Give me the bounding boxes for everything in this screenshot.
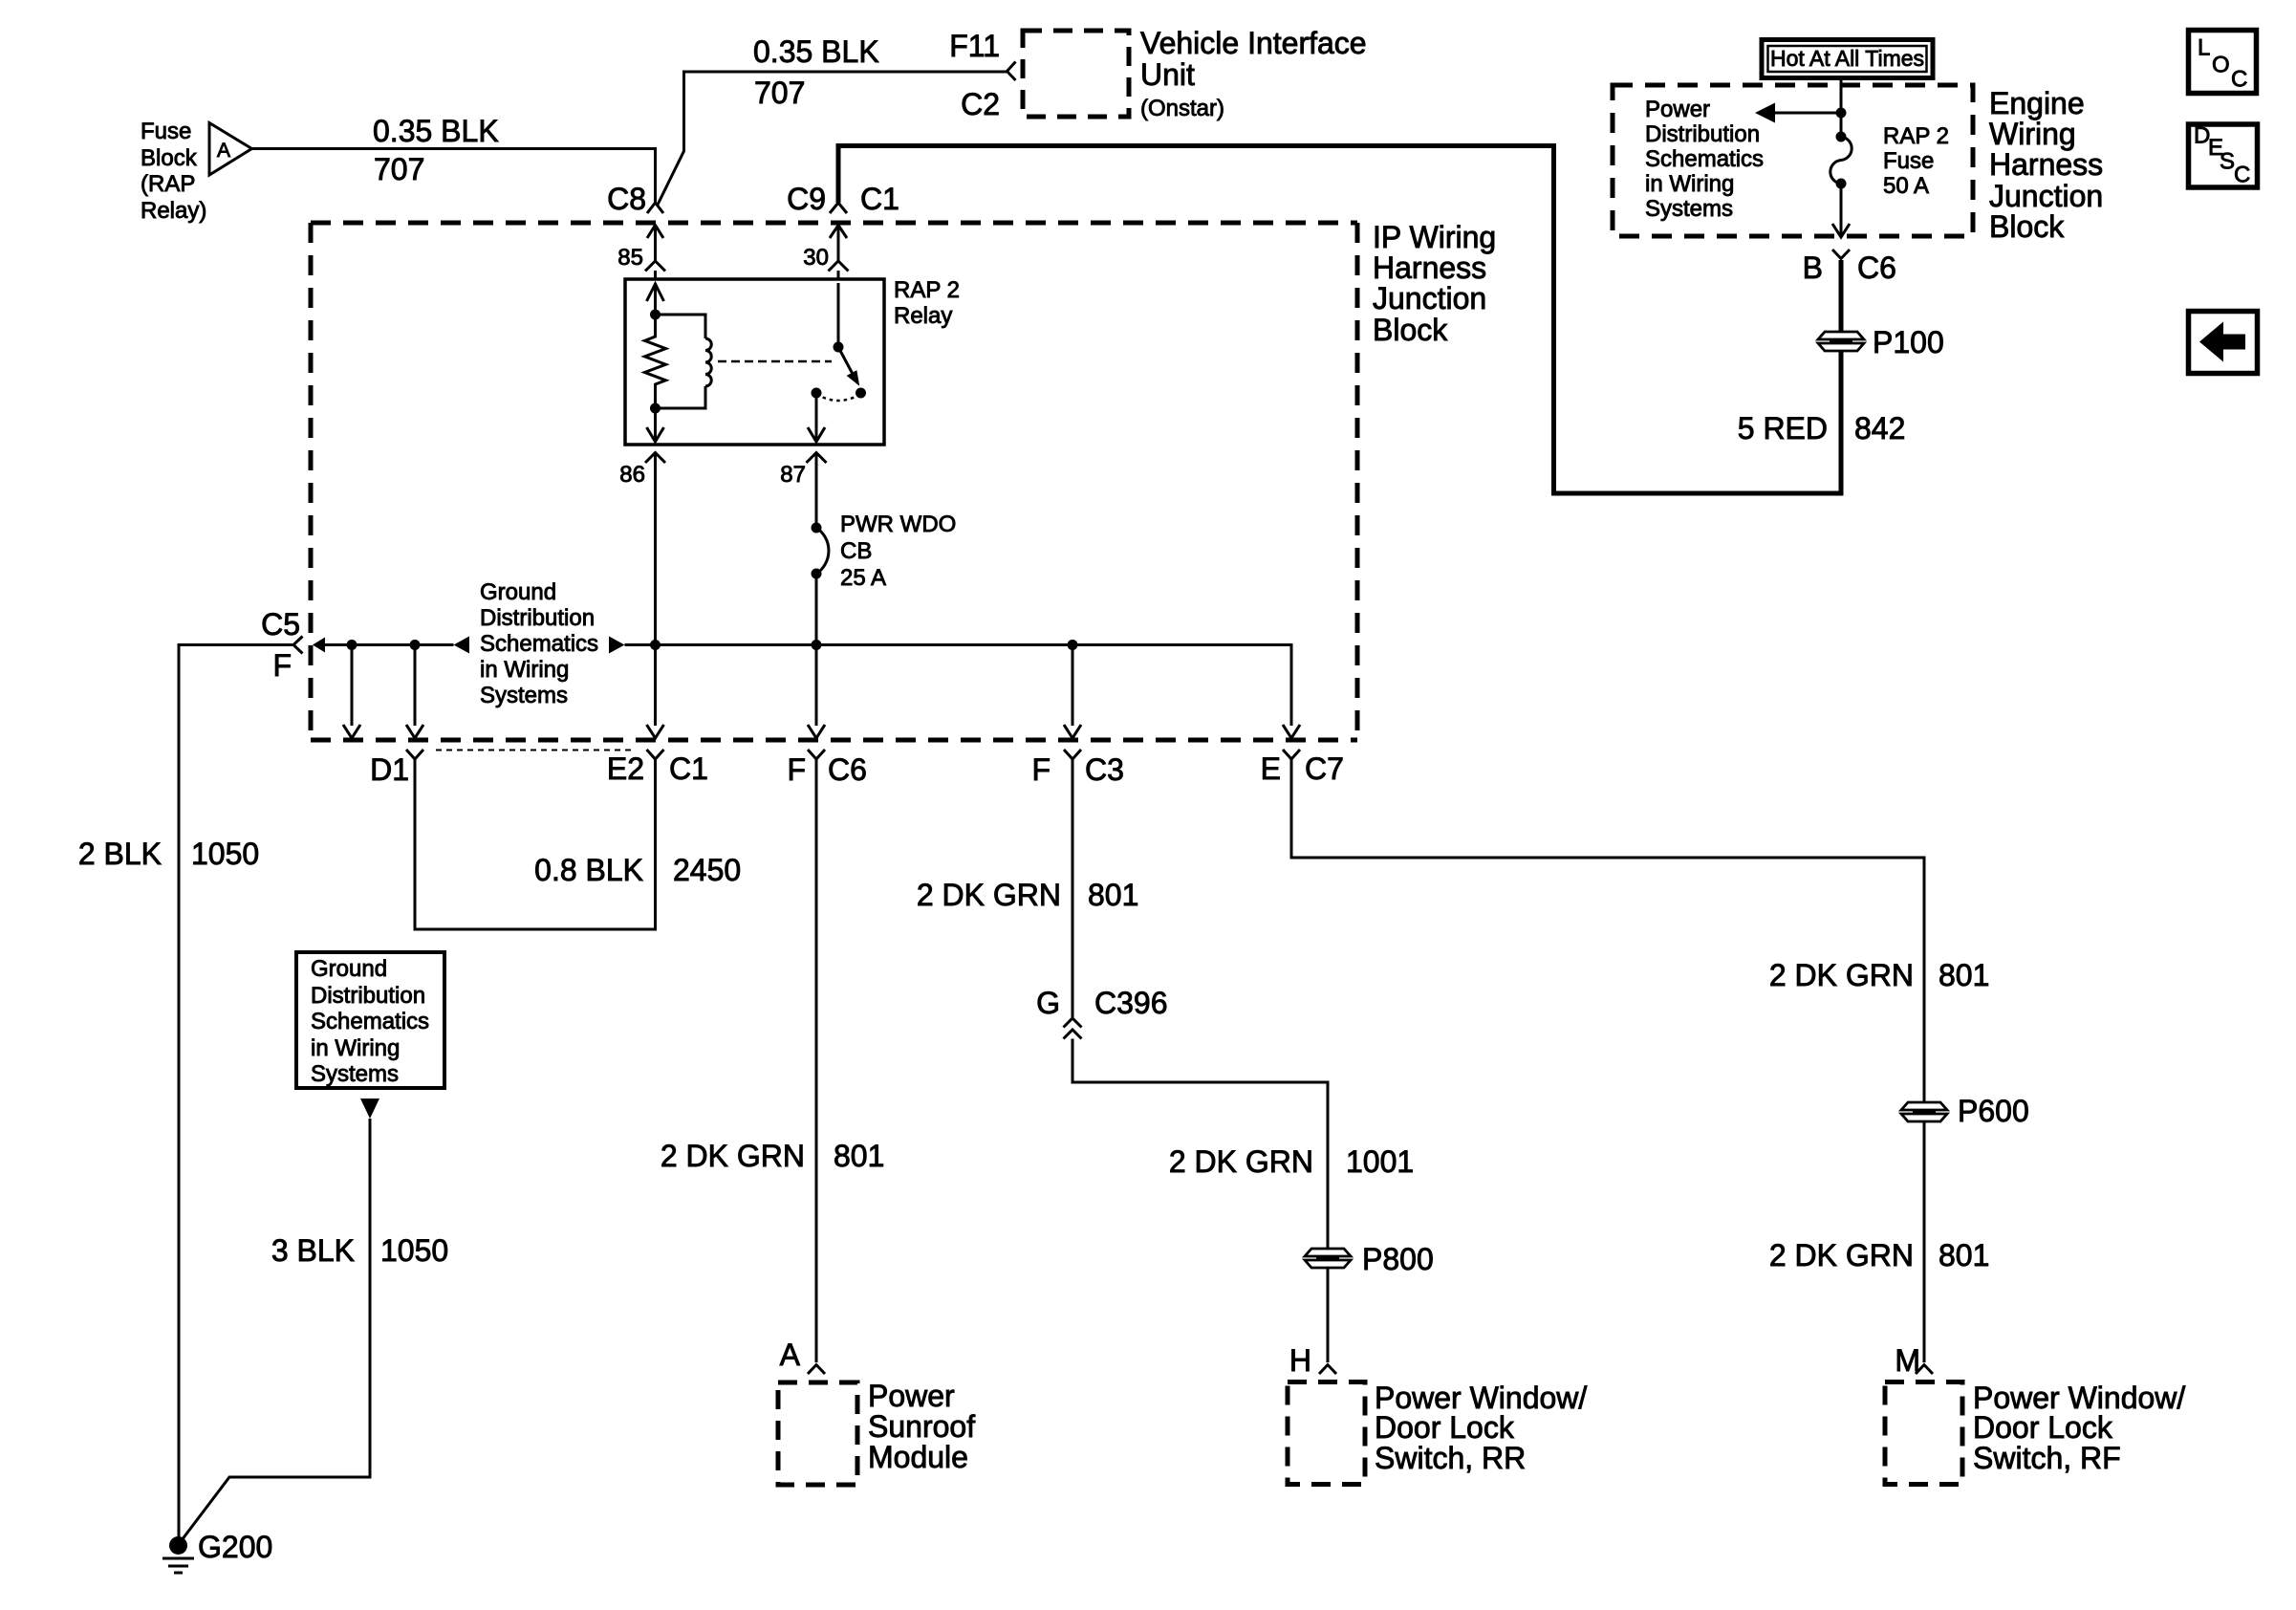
- svg-text:Block: Block: [141, 145, 198, 171]
- connector E2 C1: [607, 750, 708, 786]
- svg-text:2450: 2450: [673, 853, 741, 887]
- svg-text:Schematics: Schematics: [480, 631, 598, 657]
- svg-text:Vehicle Interface: Vehicle Interface: [1140, 26, 1367, 60]
- svg-text:30: 30: [803, 245, 829, 271]
- pin 30: [803, 245, 848, 279]
- svg-text:A: A: [780, 1338, 801, 1372]
- svg-text:Block: Block: [1989, 209, 2065, 244]
- wire C1 feed to engine junction block (thick): [838, 146, 1841, 494]
- svg-text:C3: C3: [1085, 752, 1124, 787]
- wire coil to pin 86: [654, 408, 657, 427]
- svg-text:Schematics: Schematics: [311, 1009, 429, 1034]
- svg-text:Switch, RF: Switch, RF: [1973, 1441, 2121, 1475]
- svg-text:Relay): Relay): [141, 198, 206, 224]
- power window door lock switch RF box: [1885, 1381, 2185, 1485]
- wire F C6 down to sunroof module (2 DK GRN 801): [815, 759, 818, 1362]
- arrow down at engine box edge: [1832, 224, 1850, 237]
- svg-text:D1: D1: [370, 752, 409, 787]
- svg-text:(Onstar): (Onstar): [1140, 96, 1224, 121]
- svg-text:C7: C7: [1305, 751, 1344, 786]
- svg-text:H: H: [1289, 1343, 1311, 1378]
- power window door lock switch RR box: [1288, 1381, 1587, 1485]
- value label 2 DK GRN 801 (lower right): [1769, 1238, 1990, 1273]
- svg-text:50 A: 50 A: [1883, 173, 1929, 199]
- arrow down at E2: [647, 725, 664, 738]
- fuse block label: [141, 119, 206, 224]
- wire F C3 down to G C396 (2 DK GRN 801): [1072, 759, 1074, 1017]
- svg-text:E2: E2: [607, 751, 644, 786]
- svg-text:C: C: [2231, 67, 2247, 93]
- svg-text:Wiring: Wiring: [1989, 117, 2076, 151]
- svg-text:F: F: [1031, 752, 1051, 787]
- value label 0.35 BLK 707 (upper): [753, 34, 879, 110]
- value label 2 DK GRN 801 (upper right): [1769, 958, 1990, 992]
- wire pin 87 to CB: [815, 453, 818, 528]
- ground distribution schematics label (mid): [480, 579, 598, 708]
- svg-text:801: 801: [1088, 878, 1138, 912]
- relay coil branch arrow: [647, 284, 664, 301]
- svg-text:C1: C1: [860, 182, 899, 216]
- svg-text:2 DK GRN: 2 DK GRN: [1769, 1238, 1914, 1273]
- resistor (relay): [645, 315, 666, 408]
- junction on ground bus at E2 line: [650, 640, 661, 650]
- value label 3 BLK 1050: [271, 1233, 448, 1268]
- wire pin 86 down: [654, 453, 657, 726]
- svg-text:707: 707: [754, 76, 805, 110]
- svg-text:CB: CB: [840, 538, 872, 564]
- svg-text:F11: F11: [949, 29, 1000, 63]
- svg-text:E: E: [1261, 751, 1281, 786]
- node A fuse block triangle: [209, 123, 252, 176]
- arrow down at E C7: [1283, 725, 1300, 738]
- wire down to D1: [406, 645, 423, 739]
- svg-text:1001: 1001: [1346, 1144, 1414, 1179]
- connector D1: [370, 750, 423, 787]
- connector G C396: [1036, 986, 1167, 1039]
- svg-text:S: S: [2220, 149, 2235, 175]
- svg-text:P600: P600: [1958, 1094, 2029, 1128]
- svg-text:in Wiring: in Wiring: [311, 1035, 400, 1061]
- svg-text:Relay: Relay: [894, 303, 952, 329]
- connector H switch RR: [1289, 1343, 1336, 1378]
- wire G C396 to P800 branch: [1072, 1039, 1328, 1250]
- svg-text:Fuse: Fuse: [1883, 148, 1934, 174]
- arrow left power distribution: [1755, 103, 1775, 123]
- wire C8 to F11 (0.35 BLK 707 upper): [658, 72, 1007, 205]
- thin dashed connector line D1-E2: [436, 750, 634, 751]
- svg-text:2 DK GRN: 2 DK GRN: [661, 1139, 805, 1173]
- svg-text:Power: Power: [868, 1379, 955, 1413]
- pass-through grommet P600: [1901, 1094, 2029, 1128]
- svg-text:87: 87: [780, 462, 806, 488]
- svg-text:Systems: Systems: [311, 1061, 399, 1087]
- back arrow box: [2189, 312, 2258, 374]
- description reference box DESC: [2189, 123, 2258, 188]
- svg-text:Systems: Systems: [1645, 196, 1733, 222]
- svg-text:Junction: Junction: [1373, 281, 1486, 315]
- wire contact to pin 87: [815, 393, 818, 427]
- svg-text:(RAP: (RAP: [141, 171, 195, 197]
- svg-text:PWR WDO: PWR WDO: [840, 511, 956, 537]
- relay actuation dashed link: [718, 360, 832, 363]
- relay RAP 2 box: [625, 277, 960, 445]
- svg-text:Junction: Junction: [1989, 179, 2103, 213]
- junction on ground bus at stub: [347, 640, 357, 650]
- svg-text:C5: C5: [261, 607, 300, 642]
- power sunroof module box: [778, 1379, 975, 1485]
- ground bus wire inside IP box: [325, 643, 454, 646]
- connector C8: [607, 182, 663, 216]
- wire E C7 down and right to RF branch: [1291, 759, 1924, 1101]
- connector F11 C2: [949, 29, 1015, 121]
- connector C9 C1: [787, 182, 899, 216]
- arrow down to pin 87: [808, 427, 825, 442]
- svg-text:Distribution: Distribution: [1645, 121, 1760, 147]
- relay coil top wire: [654, 283, 657, 315]
- svg-text:801: 801: [1939, 1238, 1989, 1273]
- arrow left ground schematics: [454, 637, 470, 654]
- junction: [1836, 108, 1847, 119]
- svg-text:2 BLK: 2 BLK: [78, 837, 162, 871]
- svg-text:Power: Power: [1645, 97, 1710, 122]
- svg-text:G200: G200: [198, 1530, 272, 1564]
- value label 2 DK GRN 1001: [1169, 1144, 1414, 1179]
- power distribution schematics label: [1645, 97, 1764, 222]
- svg-text:801: 801: [1939, 958, 1989, 992]
- svg-text:Distribution: Distribution: [311, 983, 425, 1009]
- svg-text:A: A: [217, 140, 230, 162]
- svg-text:842: 842: [1854, 411, 1905, 446]
- svg-text:C6: C6: [1857, 250, 1896, 285]
- location reference box LOC: [2189, 31, 2257, 94]
- pin 85: [617, 245, 665, 279]
- value label 0.8 BLK 2450: [534, 853, 741, 887]
- svg-text:86: 86: [619, 462, 645, 488]
- svg-text:2 DK GRN: 2 DK GRN: [1169, 1144, 1313, 1179]
- wire 2 BLK 1050 from C5 to G200: [179, 645, 293, 1542]
- svg-text:3 BLK: 3 BLK: [271, 1233, 355, 1268]
- svg-text:Ground: Ground: [480, 579, 556, 605]
- svg-text:0.8 BLK: 0.8 BLK: [534, 853, 643, 887]
- svg-text:C6: C6: [828, 752, 867, 787]
- arrow right ground schematics: [609, 637, 625, 654]
- hot at all times box: [1762, 40, 1933, 78]
- wire C9 arrow to pin30: [837, 226, 840, 261]
- svg-text:Ground: Ground: [311, 956, 387, 982]
- wire fuse to B C6: [1840, 184, 1843, 236]
- junction: [650, 403, 661, 414]
- connector B C6: [1803, 250, 1896, 285]
- junction: [650, 310, 661, 320]
- svg-text:Schematics: Schematics: [1645, 146, 1764, 172]
- svg-text:25 A: 25 A: [840, 565, 886, 591]
- arrow into IP box at C9/C1: [830, 226, 847, 239]
- circuit breaker PWR WDO CB 25 A: [812, 511, 957, 591]
- svg-text:1050: 1050: [380, 1233, 448, 1268]
- wire to power distribution arrow: [1775, 112, 1841, 115]
- value label 5 RED 842: [1738, 411, 1906, 446]
- arrow down to pin 86: [647, 427, 664, 442]
- ground bus wire to E C7 drop: [625, 645, 1292, 727]
- wire hot feed down from hot box: [1840, 77, 1843, 137]
- relay switch dotted arc: [816, 394, 861, 401]
- svg-text:Engine: Engine: [1989, 86, 2085, 120]
- svg-text:C: C: [2234, 163, 2250, 188]
- wire 3 BLK 1050 to G200: [182, 1119, 370, 1540]
- svg-text:C9: C9: [787, 182, 826, 216]
- svg-text:C2: C2: [961, 87, 1000, 121]
- svg-text:C1: C1: [669, 751, 708, 786]
- engine wiring harness junction block dashed box: [1613, 85, 2103, 244]
- wire P600 to M (2 DK GRN 801): [1923, 1121, 1926, 1362]
- arrow into IP box at C8: [647, 226, 663, 239]
- connector C5: [261, 607, 302, 683]
- relay switch arm: [838, 347, 859, 385]
- svg-text:Fuse: Fuse: [141, 119, 191, 144]
- svg-text:P100: P100: [1873, 325, 1944, 359]
- svg-text:RAP 2: RAP 2: [894, 277, 960, 303]
- junction on ground bus at C6 line: [812, 640, 822, 650]
- svg-text:P800: P800: [1362, 1242, 1434, 1276]
- svg-text:C396: C396: [1094, 986, 1168, 1020]
- wire A to C8 (0.35 BLK 707): [252, 149, 656, 203]
- svg-text:Block: Block: [1373, 313, 1448, 347]
- svg-text:1050: 1050: [191, 837, 259, 871]
- solid arrow below ground box: [360, 1099, 379, 1119]
- connector F C6: [787, 750, 866, 787]
- pass-through grommet P800: [1305, 1242, 1434, 1276]
- svg-text:G: G: [1036, 986, 1060, 1020]
- svg-text:Unit: Unit: [1140, 57, 1195, 92]
- value label 2 DK GRN 801: [661, 1139, 885, 1173]
- junction on ground bus at D1 drop: [410, 640, 421, 650]
- svg-text:85: 85: [617, 245, 643, 271]
- vehicle interface unit box: [1023, 26, 1367, 121]
- svg-text:Sunroof: Sunroof: [868, 1409, 975, 1444]
- stub wire down from ground bus: [343, 645, 360, 739]
- svg-text:707: 707: [374, 152, 424, 186]
- svg-text:Harness: Harness: [1989, 147, 2103, 182]
- value label 2 DK GRN 801: [917, 878, 1139, 912]
- svg-text:F: F: [787, 752, 806, 787]
- svg-text:Door Lock: Door Lock: [1375, 1410, 1515, 1445]
- svg-text:2 DK GRN: 2 DK GRN: [1769, 958, 1914, 992]
- ground G200: [162, 1530, 272, 1573]
- junction on ground bus at C3 line: [1068, 640, 1078, 650]
- wire U loop D1 to E2 (0.8 BLK 2450): [415, 759, 656, 929]
- relay switch pivot: [834, 283, 844, 353]
- svg-text:0.35 BLK: 0.35 BLK: [373, 114, 499, 148]
- svg-text:Module: Module: [868, 1440, 968, 1474]
- svg-text:RAP 2: RAP 2: [1883, 123, 1949, 149]
- wire C8 arrow to pin85: [654, 226, 657, 261]
- wire CB to ground bus: [815, 574, 818, 726]
- connector A power sunroof module: [780, 1338, 825, 1374]
- value label 2 BLK 1050: [78, 837, 259, 871]
- svg-text:F: F: [272, 648, 292, 683]
- IP wiring harness junction block dashed box: [311, 220, 1496, 740]
- svg-text:Switch, RR: Switch, RR: [1375, 1441, 1526, 1475]
- arrow down at F C3: [1064, 645, 1081, 739]
- connector E C7: [1261, 750, 1344, 786]
- pass-through grommet P100: [1818, 325, 1944, 359]
- svg-text:L: L: [2198, 35, 2210, 61]
- relay switch contacts: [812, 388, 822, 399]
- svg-text:0.35 BLK: 0.35 BLK: [753, 34, 879, 69]
- pin 86: [619, 453, 665, 489]
- svg-text:O: O: [2212, 53, 2230, 78]
- svg-text:in Wiring: in Wiring: [1645, 171, 1734, 197]
- svg-text:B: B: [1803, 250, 1823, 285]
- svg-text:Systems: Systems: [480, 683, 568, 708]
- svg-text:IP Wiring: IP Wiring: [1373, 220, 1496, 254]
- svg-text:Hot At All Times: Hot At All Times: [1770, 46, 1924, 71]
- svg-text:Harness: Harness: [1373, 250, 1486, 285]
- svg-text:Distribution: Distribution: [480, 605, 595, 631]
- wire P800 to H: [1327, 1268, 1330, 1362]
- fuse RAP 2 50 A: [1830, 123, 1949, 199]
- relay coil: [656, 315, 712, 408]
- svg-text:in Wiring: in Wiring: [480, 657, 569, 683]
- svg-text:5 RED: 5 RED: [1738, 411, 1828, 446]
- wire C5 to ground bus arrow: [313, 638, 325, 653]
- connector M switch RF: [1895, 1343, 1933, 1378]
- svg-text:801: 801: [834, 1139, 884, 1173]
- ground distribution schematics box (lower left): [296, 952, 444, 1088]
- svg-text:2 DK GRN: 2 DK GRN: [917, 878, 1061, 912]
- svg-text:C8: C8: [607, 182, 646, 216]
- pin 87: [780, 453, 826, 489]
- value label 0.35 BLK 707 (lower): [373, 114, 499, 186]
- svg-text:Door Lock: Door Lock: [1973, 1410, 2113, 1445]
- arrow down at F C6: [808, 725, 825, 738]
- connector F C3: [1031, 750, 1123, 787]
